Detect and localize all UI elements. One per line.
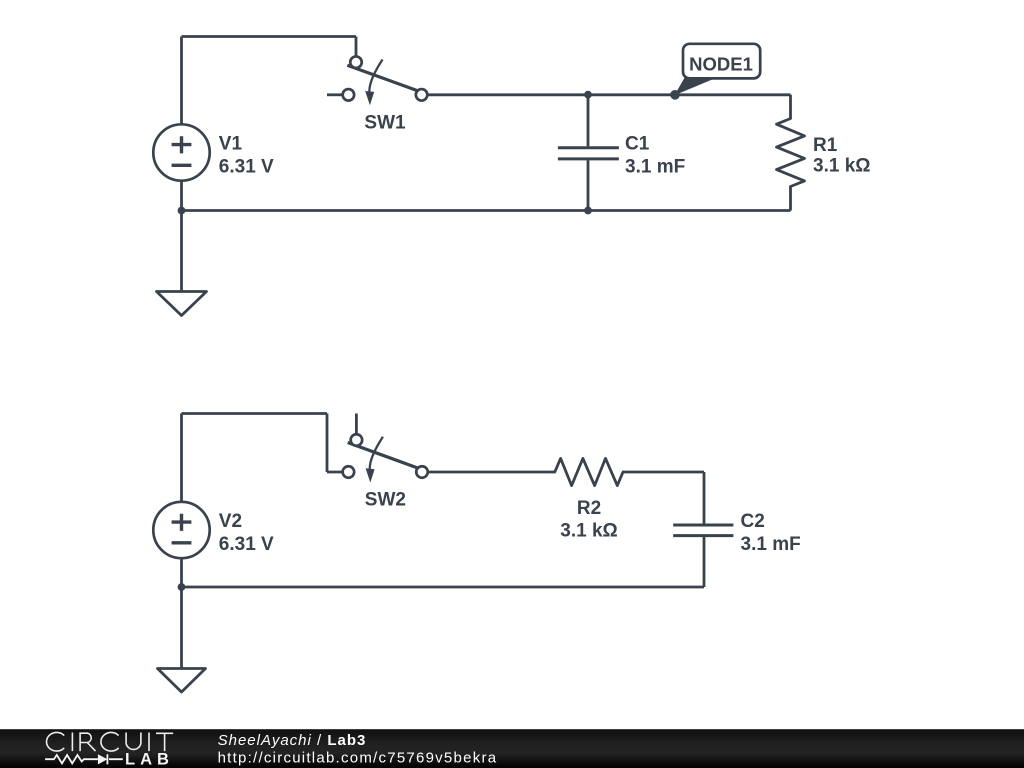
svg-text:C1: C1 [625, 134, 650, 155]
svg-text:NODE1: NODE1 [689, 54, 753, 75]
svg-text:R2: R2 [577, 498, 601, 519]
wire top-left loop V2 [182, 414, 328, 502]
ground bottom circuit [158, 669, 206, 693]
footer bar [0, 729, 1024, 768]
wire R1 branch vertical [789, 95, 792, 211]
resistor R1 [777, 119, 871, 187]
junction dot C1 bottom [584, 207, 592, 215]
svg-text:3.1 kΩ: 3.1 kΩ [813, 155, 871, 176]
wire V1 to ground [180, 181, 183, 292]
junction dot V1 bottom [178, 207, 186, 215]
svg-text:R1: R1 [813, 135, 838, 156]
wire step down to SW2 left [327, 414, 343, 473]
svg-text:6.31 V: 6.31 V [219, 157, 274, 178]
wire SW2 top dangling stub [355, 414, 358, 435]
voltage source V2 [153, 502, 274, 558]
wire C2 bottom [703, 537, 706, 587]
wire R2 to C2 corner [623, 472, 704, 524]
voltage source V1 [153, 124, 274, 180]
switch SW1 [327, 56, 427, 133]
svg-text:C2: C2 [741, 511, 765, 532]
svg-text:LAB: LAB [125, 750, 174, 768]
junction dot C1 top [584, 91, 592, 99]
svg-text:3.1 mF: 3.1 mF [625, 157, 685, 178]
capacitor C1 [558, 134, 685, 178]
junction dot V2 bottom [178, 583, 186, 591]
svg-text:SW2: SW2 [365, 490, 406, 511]
svg-text:V2: V2 [219, 511, 242, 532]
svg-text:V1: V1 [219, 134, 243, 155]
wire top-left loop V1 to SW1 [182, 37, 357, 125]
wire SW1 output to R1 corner [427, 93, 790, 96]
svg-text:SW1: SW1 [364, 112, 406, 133]
svg-text:SheelAyachi / Lab3: SheelAyachi / Lab3 [218, 732, 367, 749]
svg-text:http://circuitlab.com/c75769v5: http://circuitlab.com/c75769v5bekra [218, 749, 498, 766]
svg-text:3.1 mF: 3.1 mF [741, 534, 801, 555]
wire SW1 top stub [355, 37, 358, 57]
switch SW2 [343, 434, 428, 510]
svg-text:6.31 V: 6.31 V [219, 534, 274, 555]
node label NODE1 [675, 44, 761, 96]
ground top circuit [157, 292, 207, 316]
wire V2 to ground [180, 558, 183, 668]
wire SW2 output to R2 [428, 471, 555, 474]
wire C1 branch vertical [587, 95, 590, 211]
resistor R2 [555, 458, 623, 541]
capacitor C2 [673, 511, 801, 555]
logo CIRCUIT wordmark [47, 732, 174, 751]
wire bottom rail bottom circuit [182, 586, 705, 589]
logo diode triangle [98, 754, 108, 764]
node dot NODE1 [670, 90, 680, 100]
wire bottom rail top circuit [182, 209, 791, 212]
svg-text:3.1 kΩ: 3.1 kΩ [560, 520, 618, 541]
logo resistor-diode squiggle [45, 754, 123, 764]
